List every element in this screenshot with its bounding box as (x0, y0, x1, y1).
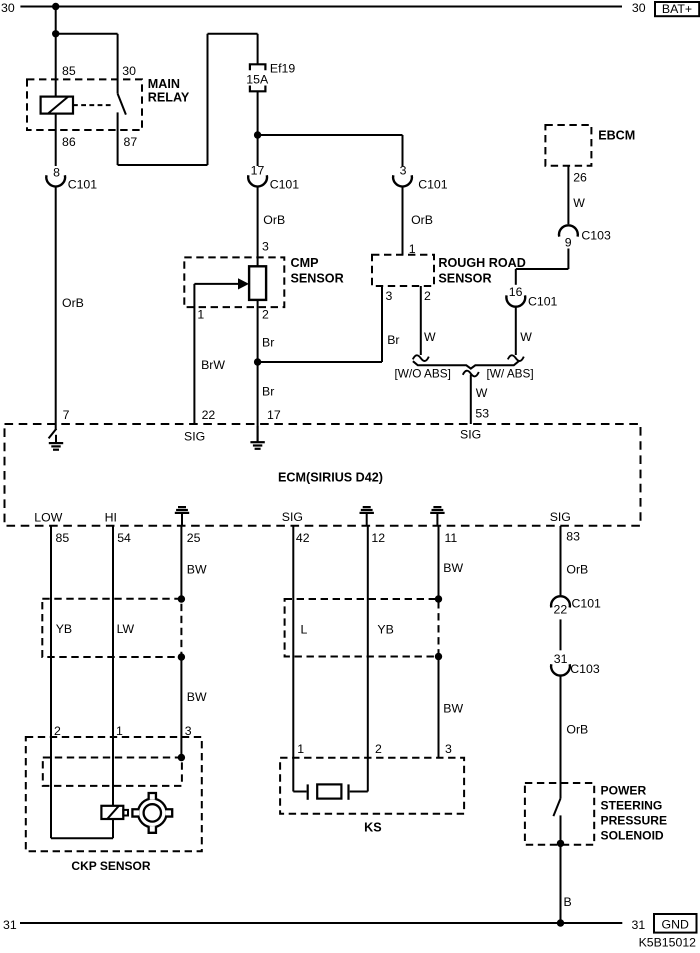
svg-text:C101: C101 (528, 295, 558, 309)
svg-text:2: 2 (375, 742, 382, 756)
svg-text:OrB: OrB (566, 563, 588, 577)
svg-text:C101: C101 (68, 178, 98, 192)
svg-text:2: 2 (262, 307, 269, 321)
svg-text:POWER: POWER (601, 784, 647, 798)
svg-text:BAT+: BAT+ (662, 2, 692, 16)
svg-text:17: 17 (267, 408, 281, 422)
svg-text:1: 1 (297, 742, 304, 756)
svg-text:1: 1 (116, 724, 123, 738)
svg-text:3: 3 (445, 742, 452, 756)
svg-text:SIG: SIG (184, 430, 205, 444)
svg-text:31: 31 (554, 652, 568, 666)
svg-text:[W/ ABS]: [W/ ABS] (487, 367, 534, 381)
svg-text:SOLENOID: SOLENOID (601, 828, 664, 842)
svg-text:54: 54 (117, 531, 131, 545)
svg-text:2: 2 (54, 724, 61, 738)
svg-text:3: 3 (386, 289, 393, 303)
svg-text:SENSOR: SENSOR (438, 271, 491, 285)
svg-text:26: 26 (573, 170, 587, 184)
svg-text:GND: GND (662, 918, 689, 932)
svg-text:CKP SENSOR: CKP SENSOR (71, 859, 150, 873)
svg-text:30: 30 (122, 64, 136, 78)
svg-text:BrW: BrW (201, 358, 225, 372)
svg-text:7: 7 (63, 408, 70, 422)
svg-text:22: 22 (202, 408, 216, 422)
svg-text:B: B (564, 895, 572, 909)
svg-text:SIG: SIG (460, 428, 481, 442)
svg-text:C101: C101 (572, 597, 602, 611)
svg-text:EBCM: EBCM (598, 128, 635, 142)
svg-text:SIG: SIG (550, 510, 571, 524)
svg-text:Br: Br (387, 333, 399, 347)
svg-text:YB: YB (377, 623, 393, 637)
svg-text:83: 83 (566, 530, 580, 544)
svg-text:MAIN: MAIN (148, 77, 180, 91)
svg-text:W: W (424, 330, 436, 344)
svg-text:3: 3 (400, 164, 407, 178)
svg-text:BW: BW (187, 690, 207, 704)
svg-text:C101: C101 (270, 178, 300, 192)
svg-text:9: 9 (565, 236, 572, 250)
svg-text:85: 85 (62, 64, 76, 78)
svg-text:42: 42 (296, 531, 310, 545)
svg-text:12: 12 (371, 531, 385, 545)
svg-text:OrB: OrB (566, 722, 588, 736)
svg-text:3: 3 (185, 724, 192, 738)
svg-text:Br: Br (262, 385, 274, 399)
svg-text:1: 1 (197, 307, 204, 321)
svg-text:SENSOR: SENSOR (291, 271, 344, 285)
svg-text:85: 85 (56, 531, 70, 545)
svg-text:Ef19: Ef19 (270, 62, 295, 76)
svg-text:L: L (301, 623, 308, 637)
svg-text:KS: KS (364, 820, 382, 834)
svg-text:BW: BW (443, 701, 463, 715)
svg-text:W: W (573, 196, 585, 210)
svg-text:ECM(SIRIUS D42): ECM(SIRIUS D42) (278, 470, 383, 484)
svg-text:16: 16 (509, 285, 523, 299)
svg-text:STEERING: STEERING (601, 799, 663, 813)
svg-text:86: 86 (62, 135, 76, 149)
svg-text:3: 3 (262, 240, 269, 254)
svg-text:8: 8 (53, 165, 60, 179)
svg-text:BW: BW (443, 561, 463, 575)
svg-text:LW: LW (117, 622, 135, 636)
svg-text:31: 31 (632, 918, 646, 932)
svg-text:30: 30 (1, 1, 15, 15)
svg-text:PRESSURE: PRESSURE (601, 813, 668, 827)
svg-text:C103: C103 (570, 662, 600, 676)
svg-text:W: W (476, 386, 488, 400)
svg-text:C101: C101 (418, 178, 448, 192)
svg-text:OrB: OrB (263, 213, 285, 227)
svg-text:22: 22 (554, 603, 568, 617)
svg-text:Br: Br (262, 336, 274, 350)
svg-text:15A: 15A (246, 73, 269, 87)
svg-text:OrB: OrB (411, 213, 433, 227)
svg-text:1: 1 (409, 242, 416, 256)
svg-text:31: 31 (3, 918, 17, 932)
svg-text:CMP: CMP (291, 256, 319, 270)
svg-text:25: 25 (187, 531, 201, 545)
svg-text:30: 30 (632, 1, 646, 15)
svg-text:SIG: SIG (282, 510, 303, 524)
svg-text:11: 11 (445, 531, 458, 545)
svg-text:87: 87 (124, 135, 138, 149)
svg-text:2: 2 (424, 289, 431, 303)
svg-text:LOW: LOW (34, 511, 62, 525)
svg-text:RELAY: RELAY (148, 90, 190, 104)
svg-text:C103: C103 (581, 228, 611, 242)
svg-text:ROUGH ROAD: ROUGH ROAD (438, 256, 525, 270)
svg-text:HI: HI (105, 511, 117, 525)
svg-text:53: 53 (475, 407, 489, 421)
svg-text:17: 17 (251, 164, 265, 178)
svg-text:YB: YB (56, 622, 72, 636)
svg-text:BW: BW (187, 563, 207, 577)
svg-text:[W/O ABS]: [W/O ABS] (395, 367, 451, 381)
svg-text:OrB: OrB (62, 296, 84, 310)
svg-text:K5B15012: K5B15012 (639, 936, 697, 950)
svg-text:W: W (520, 330, 532, 344)
